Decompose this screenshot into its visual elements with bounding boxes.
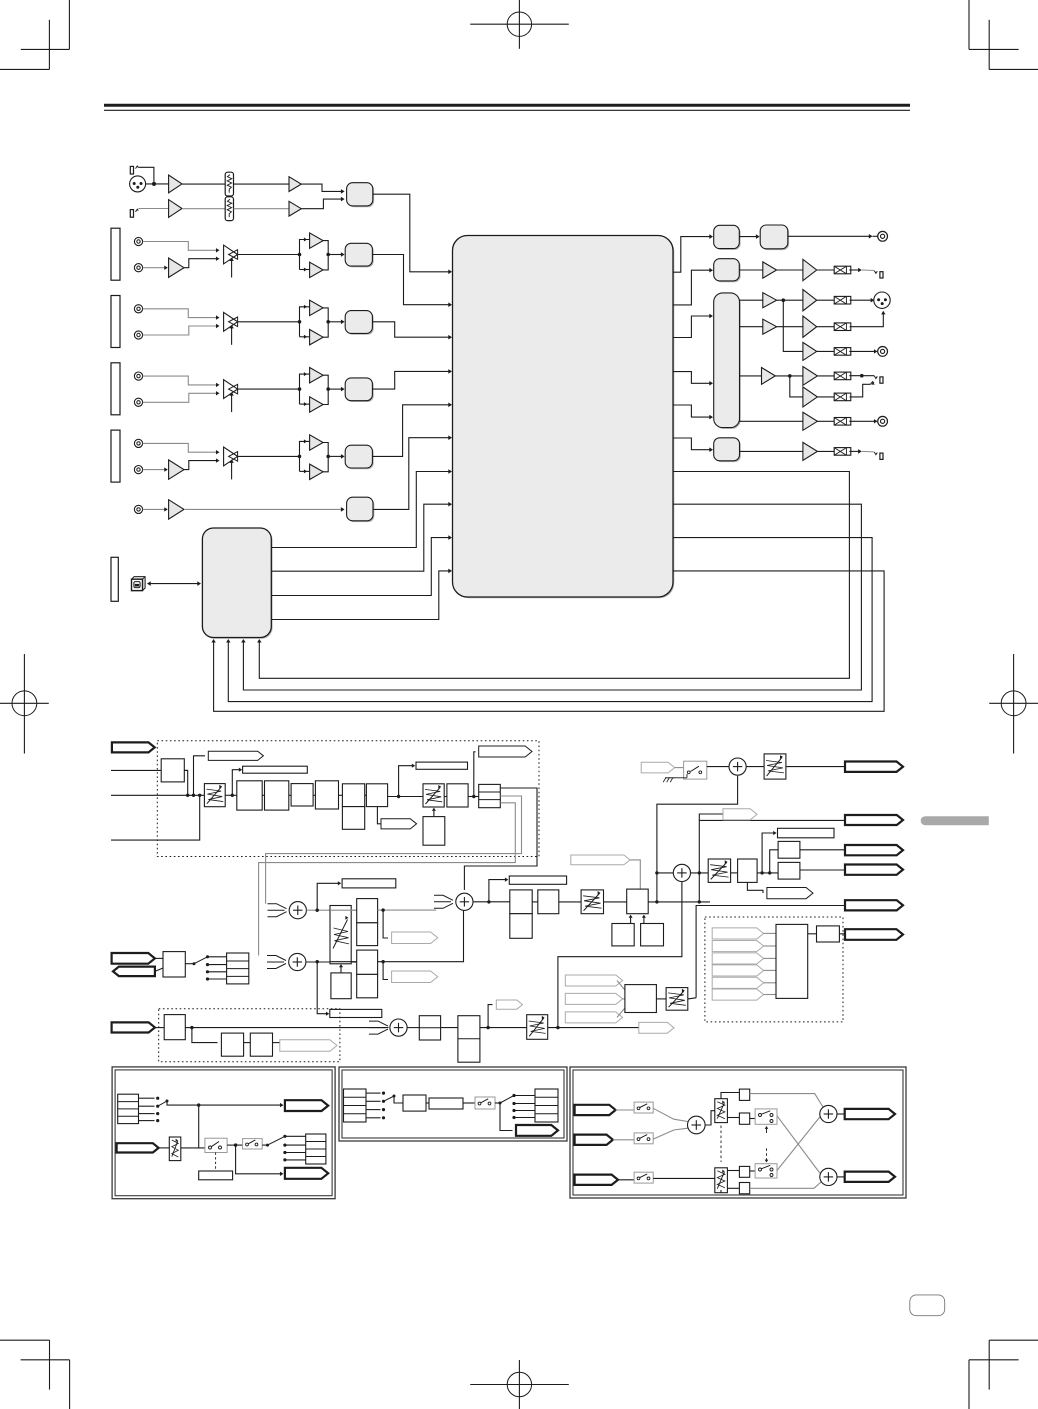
ch4 trim in arrow L (216, 450, 220, 454)
talk sw wire (185, 963, 194, 965)
sampler src pentagon 4 (712, 965, 763, 976)
master out pentagon3 (845, 845, 903, 855)
row2 wire d (849, 269, 859, 271)
ch4 buffer out wire (328, 455, 341, 457)
ch2 trim in arrow L (216, 315, 220, 319)
fx send label wire (399, 766, 413, 797)
usb in3 arrow (226, 639, 230, 643)
cue dot3 (381, 908, 384, 911)
booth wire c (604, 901, 627, 903)
ch1 to dsp wire (372, 255, 448, 305)
ch3 trim in arrow R (216, 391, 220, 395)
mic1 jack connector (130, 166, 138, 174)
ub1 stack wire 1098.2 (139, 1097, 155, 1099)
bal out rect2 (778, 862, 800, 879)
talk wire a (155, 957, 163, 959)
fx node dot4 (472, 795, 475, 798)
cue monitor arrow (326, 1012, 329, 1016)
ub3 sq1 out (750, 1094, 823, 1107)
ch1 channel block (345, 243, 374, 267)
sampler src wire 2 (764, 945, 776, 947)
mic1 jack wire (138, 167, 154, 181)
ub3 in pentagon1 (575, 1105, 616, 1115)
fx block rect5a (342, 784, 364, 807)
row9 amp (803, 442, 818, 460)
fx out black wire (464, 788, 537, 890)
gnd link wire (675, 777, 687, 779)
row4 up arrow (881, 311, 885, 315)
session stack2 (419, 1016, 440, 1040)
bal meter wire (762, 833, 774, 873)
talk c wire3 (208, 971, 227, 973)
ch2 buffer out wire (328, 321, 341, 323)
ch1 rca R wire b (184, 259, 217, 268)
row3 wire c (817, 299, 835, 301)
session in pentagon (112, 1022, 155, 1032)
fx out stack (479, 784, 501, 807)
fx out grey wire2 (259, 803, 516, 956)
switch ground (663, 778, 675, 782)
row4 amp2 (803, 316, 817, 337)
mic2 preamp (169, 200, 182, 218)
ub2 lever2 (499, 1096, 515, 1105)
sum6 up wire (699, 820, 845, 902)
bal label wire (747, 882, 763, 893)
booth dot1 (487, 900, 490, 903)
ub3 cf1 top wire (721, 1093, 739, 1099)
cue mix pot (330, 906, 351, 964)
mic2 wire c (234, 208, 290, 210)
row6 mute xbox (834, 372, 851, 380)
sampler out rect (817, 926, 840, 942)
ub2 fan 1117.5 (514, 1117, 535, 1119)
ch3 rca R connector (134, 398, 142, 406)
balance pot (708, 859, 730, 882)
session wire d (273, 1042, 280, 1044)
ub1 switch2 (243, 1139, 263, 1149)
sum6 out dot (698, 871, 701, 874)
mic out wire (373, 194, 449, 272)
ub3 cf2 top wire (727, 1170, 739, 1172)
ch2 rca R connector (134, 331, 142, 339)
booth wire b (559, 901, 581, 903)
row8 amp (803, 412, 818, 430)
usb in2 arrow (241, 639, 245, 643)
sw gnd wire (686, 774, 688, 778)
booth sqE wire (643, 917, 645, 924)
session wire a (155, 1027, 164, 1029)
ub2 switch (475, 1097, 495, 1109)
fx chain w8 (468, 796, 479, 798)
dsp out9 return wire (228, 538, 872, 702)
rec out wire b (873, 235, 878, 237)
ub3 sq1 (739, 1089, 749, 1100)
ch3 trim out wire (238, 388, 300, 390)
dsp out10 return wire (214, 571, 885, 711)
ub2 stack wire 0 (366, 1092, 381, 1094)
bal wire b (757, 872, 778, 874)
fx chain w7 (444, 796, 447, 798)
ch2 trim out wire (238, 321, 300, 323)
mic mix block (347, 183, 375, 208)
mix src wires (617, 981, 625, 991)
row5 rca connector (878, 347, 888, 357)
row5 wire c (849, 350, 875, 352)
aux block (347, 497, 375, 522)
session wire e (407, 1027, 419, 1029)
usb out pentagon (845, 929, 903, 940)
fx block rect5b (342, 807, 364, 830)
top-left crop mark (0, 0, 69, 69)
session sum7 (390, 1019, 407, 1036)
talk switch lever (193, 957, 208, 965)
cue sum1 (289, 902, 306, 919)
sum6 b dot (556, 1026, 559, 1029)
talk stack (227, 953, 249, 984)
ch2 box arrow (341, 320, 345, 325)
ch2 input panel rect (111, 296, 120, 348)
ch4 line amp arrow (164, 467, 168, 471)
ub3 sumC out (837, 1176, 845, 1178)
cue monitor wire (317, 962, 326, 1014)
ub3 sq2 (739, 1113, 749, 1124)
row2 amp1 (763, 262, 777, 278)
fx level pot (204, 784, 225, 807)
ch1 rca R wire a (143, 267, 165, 269)
usb connector icon (132, 577, 146, 591)
ub2 stack wire 1 (366, 1100, 381, 1102)
ub2 out wire (500, 1103, 513, 1131)
ub2 fan 1095.5 (514, 1095, 535, 1097)
row5 mute xbox (834, 348, 851, 356)
row5 rca arrow (874, 349, 878, 353)
row9 mute xbox (834, 448, 851, 456)
ub3 cf2 bot wire2 (727, 1187, 739, 1189)
ch2 rca L connector (134, 305, 142, 313)
right margin grey bar (921, 816, 989, 825)
dsp in10 arrow (448, 569, 452, 574)
ub3 sq4 out (750, 1182, 821, 1188)
right-center registration mark (989, 654, 1038, 754)
ch4 box arrow (341, 454, 345, 459)
sum6 out wire (691, 872, 709, 874)
talk c wire2 (208, 964, 227, 966)
ub3 switch2 (634, 1133, 653, 1144)
rec out block B (760, 225, 789, 250)
row6 amp2 (803, 367, 818, 386)
bottom-left crop mark (0, 1340, 70, 1409)
ub1 stack2 (306, 1134, 326, 1164)
ub3 sw3 arrow (765, 1126, 769, 1133)
sampler src pentagon 3 (712, 953, 763, 964)
ub1 out2 pentagon (285, 1168, 328, 1179)
booth sqE arrow (642, 915, 646, 918)
usb out2 to dsp wire (271, 504, 448, 571)
row6 wire b (775, 375, 803, 377)
cue label2 wire (383, 962, 388, 980)
ub3 wire g (653, 1177, 715, 1179)
ch1 buffer out wire (328, 254, 341, 256)
dsp in7 arrow (448, 469, 452, 474)
row9 wire a (740, 450, 803, 452)
rec wire ab (739, 236, 757, 238)
mix level pot (666, 988, 688, 1011)
mic1 fader (225, 172, 233, 196)
dsp out1 wire (673, 237, 710, 273)
talk rect (163, 952, 185, 977)
sum5 out wire (746, 766, 764, 768)
aux wire a (143, 508, 165, 510)
mic1 wire d (301, 184, 341, 191)
fx in wire3 (111, 795, 200, 840)
sw wire a (675, 767, 684, 769)
ub3 sw5 out (777, 1117, 820, 1171)
sampler src pentagon 6 (712, 989, 763, 1000)
ub3 in pentagon3 (575, 1175, 618, 1185)
ub3 wire d (653, 1128, 688, 1139)
ub2 stack wire 2 (366, 1109, 381, 1111)
ch1 dual buffer amps (298, 233, 330, 278)
ub3 in pentagon2 (575, 1135, 613, 1145)
ch1 rca L connector (134, 237, 142, 245)
cue pot out2 (351, 961, 357, 963)
row8 rca arrow (874, 419, 878, 423)
mic1 wire c (234, 183, 290, 185)
sampler src wire 4 (764, 969, 776, 971)
ch4 dual buffer amps (298, 435, 330, 480)
fx pot control wire (433, 810, 435, 817)
bal dot2 (768, 871, 771, 874)
fx input select square (161, 759, 184, 782)
ub1 out wire (167, 1102, 281, 1106)
aux rca connector (134, 505, 142, 513)
booth rect B (538, 890, 559, 914)
session label2 wire (488, 1005, 492, 1028)
fx chain w5 (365, 794, 367, 796)
ub3 dashes mid (720, 1126, 722, 1163)
fx input label pentagon (112, 742, 155, 752)
fx tap label wire (377, 807, 381, 824)
dsp out3 wire (673, 316, 710, 338)
ub1 fan wire 1136.3 (285, 1135, 306, 1137)
row6 junction 2 (860, 374, 864, 378)
bal label pentagon (767, 888, 813, 899)
cue sum2 out a (306, 961, 330, 963)
dsp out6 wire (673, 438, 710, 450)
mout label pentagon (723, 809, 757, 820)
rec out arrow (869, 234, 873, 239)
USB sound-card block (202, 528, 272, 639)
master sum5 (729, 758, 746, 775)
row2 jack connector (874, 271, 883, 278)
ub1 lever2 (266, 1136, 285, 1146)
sw out wire (707, 766, 729, 768)
ch3 to dsp wire (372, 371, 448, 389)
fx chain w4 (339, 794, 343, 796)
talk pentagon 1 (112, 953, 155, 964)
cue dot2 (316, 960, 319, 963)
ub1 vpot (169, 1137, 181, 1161)
ub3 sq3 (739, 1166, 749, 1177)
master xlr connector (874, 292, 890, 308)
booth sum3 (456, 893, 473, 910)
row2 jack tail (862, 269, 875, 272)
dsp out8 return wire (243, 504, 861, 690)
ch1 trim attenuator (224, 245, 238, 277)
usb arrow left (147, 581, 151, 586)
usb panel rect (111, 557, 118, 601)
cue dot4 (381, 960, 384, 963)
out row9 arrow (709, 447, 713, 452)
master mic switch (684, 761, 707, 779)
ub3 sum B (820, 1105, 837, 1122)
cue sum1 fork (268, 904, 287, 917)
ch2 rca R wire (143, 326, 217, 335)
aux wire b (184, 508, 341, 510)
ub3 switch3 (755, 1109, 777, 1124)
row4 wire c (817, 326, 835, 328)
session dot2 (486, 1026, 489, 1029)
cue ctrl wire (340, 967, 342, 973)
top-right crop mark (969, 0, 1038, 69)
master out pentagon (845, 762, 903, 772)
master arrow2 (709, 381, 713, 386)
ch3 trim attenuator (224, 380, 238, 412)
row7 tip arrow (870, 382, 874, 385)
ub2 wire c (463, 1102, 475, 1104)
ch1 line amp arrow (164, 266, 168, 270)
usb out3 to dsp wire (271, 538, 448, 596)
row7 wire a (790, 376, 803, 397)
booth src pentagon (571, 855, 630, 865)
sampler out wire b (839, 933, 845, 935)
mix src pentagon 2 (565, 993, 622, 1004)
ch1 trim in arrow L (216, 248, 220, 252)
utility box right (570, 1067, 906, 1198)
cue sum2 (289, 953, 306, 970)
cue meter wire (317, 883, 338, 910)
session wire g (480, 1027, 527, 1029)
ch2 trim attenuator (224, 312, 238, 344)
aux to dsp wire (373, 438, 449, 510)
ub2 out pentagon (516, 1125, 558, 1136)
session rect (164, 1015, 185, 1040)
ub1 fan wire 1145.1 (285, 1144, 306, 1146)
ch1 dsp arrow (448, 302, 452, 307)
sum6 bottom wire (558, 882, 682, 1028)
dsp out4 wire (673, 372, 710, 384)
dsp out7 return wire (259, 472, 849, 679)
cue wire mid2 (378, 911, 464, 962)
master out block D (714, 293, 741, 429)
ch4 trim attenuator (224, 447, 238, 479)
cue rect pair top (357, 899, 378, 946)
mic2 wire b (182, 208, 225, 210)
ub3 crossfader1 (715, 1099, 728, 1123)
mix src wires2 (623, 998, 625, 1000)
fx node dots (186, 794, 201, 797)
bal dot1 (760, 871, 763, 874)
row3 wire a (740, 299, 763, 301)
sampler src pentagon 2 (712, 941, 763, 952)
ch2 dsp arrow (448, 335, 452, 340)
mic to master pentagon (641, 762, 675, 773)
ch4 trim in arrow R (216, 458, 220, 462)
row2 amp2 (803, 259, 817, 280)
mic2 arrow (341, 197, 345, 202)
ch4 rca R wire a (143, 469, 165, 471)
bal out1 wire (800, 849, 845, 851)
ch1 input panel rect (111, 228, 120, 280)
bal meter arrow (773, 831, 776, 835)
ub3 sum A (688, 1116, 706, 1134)
row9 arrow (858, 449, 862, 454)
ch4 input panel rect (111, 430, 120, 482)
effects dotted box (157, 741, 539, 857)
ub3 wire f (618, 1179, 634, 1181)
fx send arrow (412, 764, 415, 768)
left-center registration mark (0, 654, 49, 754)
ub3 wire b (653, 1108, 688, 1121)
row3 arrow (871, 298, 875, 303)
cue pot out1 (351, 909, 357, 911)
ub3 out pentagon1 (845, 1109, 895, 1119)
ub1 out2 arrow (280, 1172, 284, 1176)
cue label1 pentagon (392, 932, 438, 944)
ub1 stack wire 1113.6 (139, 1113, 155, 1115)
rec out path (696, 906, 845, 998)
ub1 in pentagon (117, 1143, 159, 1152)
rec rca connector (878, 231, 888, 241)
digital out block C (714, 259, 741, 283)
fx block rect1 (237, 781, 262, 810)
XLR mic input connector (130, 176, 146, 192)
booth sum3 fork (434, 895, 453, 908)
mix out wire (688, 998, 696, 999)
fx block rect6 (366, 784, 387, 807)
ch2 trim in arrow R (216, 324, 220, 328)
booth src wire (630, 860, 640, 889)
mic2 wire d (301, 199, 341, 209)
row2 wire c (817, 269, 835, 271)
ub3 wire a (616, 1109, 635, 1111)
ch3 rca R wire (143, 393, 217, 402)
row4 wire a (740, 326, 763, 328)
row3 amp1 (763, 293, 777, 308)
fx chain w3 (313, 794, 315, 796)
mic junction dot (152, 182, 156, 186)
ch4 dsp arrow (448, 403, 452, 408)
ub1 switch1 (205, 1138, 227, 1152)
fx chain w2 (289, 794, 291, 796)
bal wire a (731, 872, 738, 874)
row9 jack connector (874, 452, 883, 459)
mic2 amp 2 (289, 201, 301, 216)
ub3 sw3 out (777, 1116, 820, 1173)
ub3 cf1 mid wire (727, 1117, 739, 1119)
row9 wire c (849, 450, 859, 452)
row6 wire c (817, 375, 834, 377)
mout label wire (699, 814, 723, 820)
ub3 wire e (705, 1111, 715, 1125)
ub1 stack wire 1120.6 (139, 1120, 155, 1122)
session wire f (441, 1027, 458, 1029)
bal rect1 wire (770, 850, 778, 873)
ch3 channel block (345, 378, 374, 402)
ub3 switch1 (634, 1102, 653, 1113)
row4 wire d (850, 314, 884, 327)
session pot (527, 1015, 548, 1040)
